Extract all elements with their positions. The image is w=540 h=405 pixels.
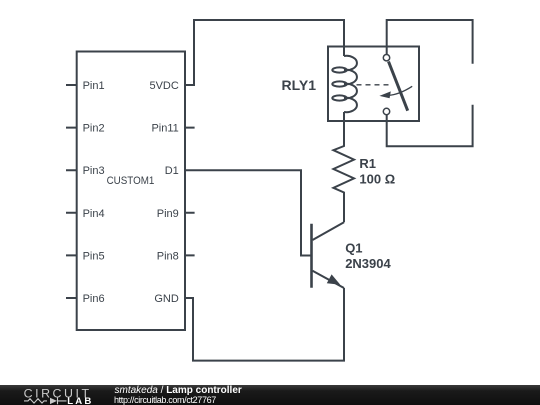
svg-text:Pin9: Pin9 <box>157 208 179 220</box>
svg-text:5VDC: 5VDC <box>149 80 178 92</box>
svg-text:Pin3: Pin3 <box>83 165 105 177</box>
svg-text:RLY1: RLY1 <box>281 77 316 93</box>
svg-text:D1: D1 <box>165 165 179 177</box>
svg-text:Pin5: Pin5 <box>83 250 105 262</box>
svg-text:Pin8: Pin8 <box>157 250 179 262</box>
svg-text:100 Ω: 100 Ω <box>359 171 395 186</box>
svg-text:2N3904: 2N3904 <box>345 256 391 271</box>
svg-text:R1: R1 <box>359 156 376 171</box>
svg-text:Pin4: Pin4 <box>83 208 105 220</box>
svg-text:Pin11: Pin11 <box>151 123 178 135</box>
svg-text:LAB: LAB <box>67 396 91 405</box>
svg-text:Pin6: Pin6 <box>83 293 105 305</box>
svg-text:Q1: Q1 <box>345 241 362 256</box>
svg-text:Pin2: Pin2 <box>83 123 105 135</box>
svg-text:GND: GND <box>154 293 179 305</box>
svg-text:Pin1: Pin1 <box>83 80 105 92</box>
svg-text:CUSTOM1: CUSTOM1 <box>107 175 155 187</box>
